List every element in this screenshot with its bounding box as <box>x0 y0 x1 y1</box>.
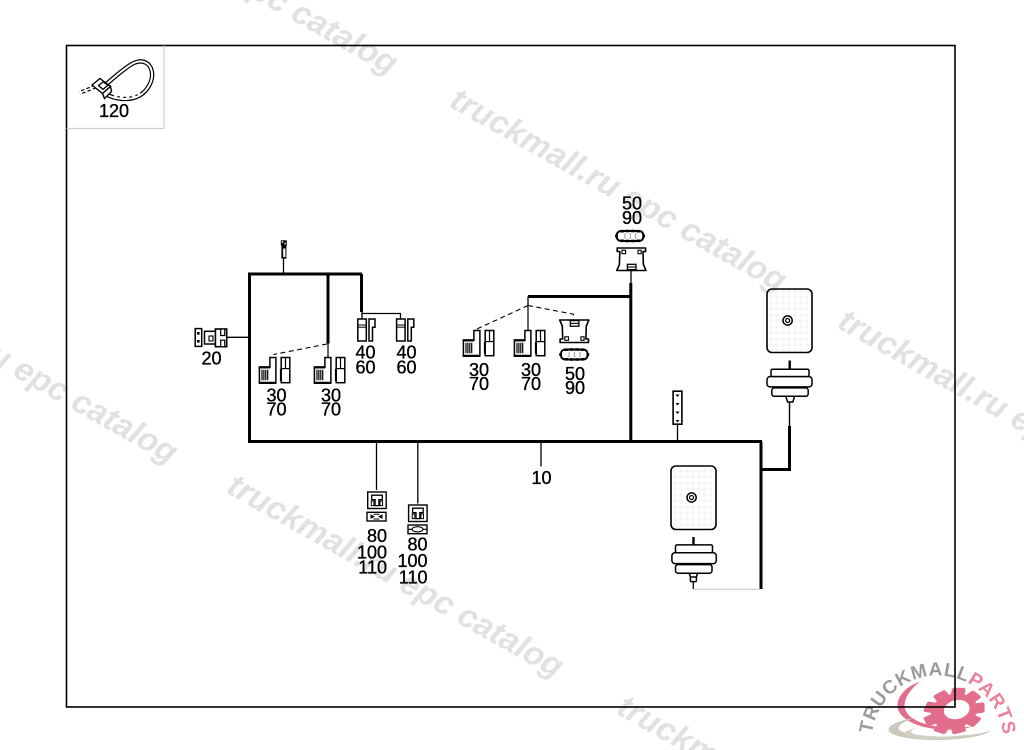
svg-text:120: 120 <box>99 101 129 121</box>
svg-text:truckmall.ru epc catalog: truckmall.ru epc catalog <box>222 466 571 685</box>
svg-text:10: 10 <box>531 468 551 488</box>
wire thin x328 to connector <box>327 344 329 359</box>
wire drop 80 no2 <box>417 443 419 504</box>
lower horn <box>672 537 716 582</box>
svg-text:60: 60 <box>396 358 416 378</box>
wire mid vertical thin <box>527 306 529 332</box>
wire antenna drop <box>283 259 285 274</box>
connector 20 <box>195 329 227 347</box>
wire dashed to left 3070 <box>274 344 328 355</box>
wire 20 to box <box>227 336 249 338</box>
wire lower gray link <box>693 588 760 590</box>
connector 30/70 no2 <box>314 358 345 384</box>
svg-text:60: 60 <box>355 358 375 378</box>
svg-text:truckmall.ru epc catalog: truckmall.ru epc catalog <box>56 0 405 81</box>
connector 30/70 no3 <box>463 331 494 357</box>
wire dashed mid-right <box>528 306 574 321</box>
lower pad <box>671 466 716 530</box>
connector 40/60 no1 <box>358 319 375 341</box>
svg-text:70: 70 <box>469 374 489 394</box>
connector 30/70 no1 <box>259 358 290 384</box>
connector 30/70 no4 <box>514 331 545 357</box>
wire 5090 top lead <box>630 271 632 284</box>
svg-text:90: 90 <box>565 378 585 398</box>
connector 50/90 top bumpy <box>615 230 645 243</box>
svg-text:70: 70 <box>321 400 341 420</box>
svg-text:20: 20 <box>201 349 221 369</box>
item 120 box <box>67 46 165 129</box>
wire upper pad lead <box>789 402 791 427</box>
connector 40/60 no2 <box>397 319 414 341</box>
wire drop 80 no1 <box>376 443 378 490</box>
svg-text:truckmall.ru epc catalog: truckmall.ru epc catalog <box>0 252 184 471</box>
logo arc text <box>872 676 1003 736</box>
wire right step <box>761 426 790 470</box>
upper horn <box>767 361 812 403</box>
wire lower nozzle lead <box>692 582 694 590</box>
upper pad <box>767 289 812 353</box>
svg-text:70: 70 <box>266 400 286 420</box>
wire dashed mid-left <box>476 306 528 330</box>
border frame <box>67 46 956 708</box>
wire bottom bus <box>248 440 762 443</box>
cable tie 120 <box>80 61 153 99</box>
wire right down leg <box>760 442 763 590</box>
wire thin to 4060 <box>362 312 401 319</box>
svg-text:110: 110 <box>358 558 387 578</box>
svg-text:truckmall.ru epc catalog: truckmall.ru epc catalog <box>833 301 1024 520</box>
connector 80/100/110 no2 <box>409 505 428 522</box>
svg-text:110: 110 <box>399 568 428 588</box>
connector 80/100/110 no1 <box>368 492 387 509</box>
svg-text:70: 70 <box>521 374 541 394</box>
wire mid horizontal <box>528 295 631 298</box>
strip connector <box>673 391 682 424</box>
wire drop label 10 <box>540 443 542 467</box>
antenna connector <box>281 240 287 258</box>
wire 5090 vertical <box>629 283 632 442</box>
wire branch vertical x361.5 <box>360 274 363 312</box>
logo gray swirl <box>889 718 991 741</box>
connector 50/90 mid trapezoid <box>560 320 589 343</box>
wire branch stub mid <box>527 297 529 306</box>
logo crescent swirl <box>898 682 973 730</box>
svg-text:90: 90 <box>622 208 642 228</box>
wire strip drop <box>677 425 679 442</box>
harness main box <box>250 274 363 442</box>
wire branch vertical x328 <box>327 274 330 344</box>
connector 50/90 mid bumpy <box>559 348 589 361</box>
connector 50/90 top trapezoid <box>617 248 646 271</box>
logo gear <box>918 681 991 741</box>
